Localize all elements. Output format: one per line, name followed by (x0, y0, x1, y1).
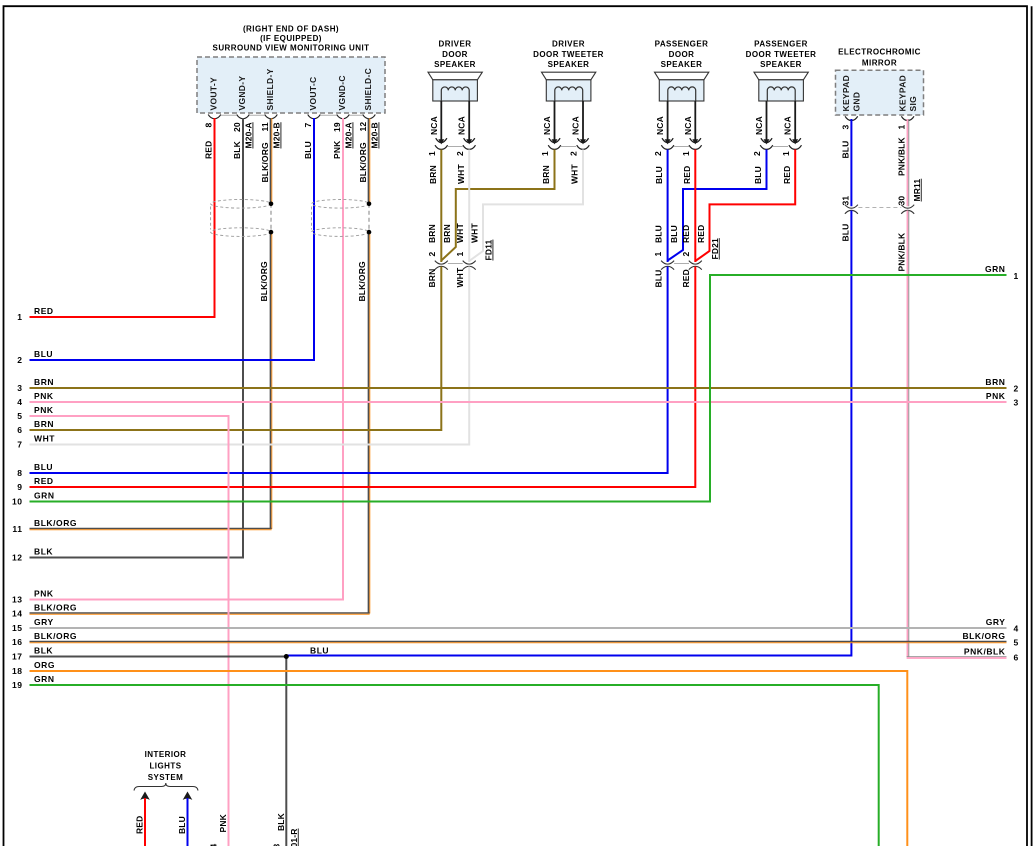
svg-text:PASSENGER: PASSENGER (754, 40, 808, 49)
svg-text:GRY: GRY (34, 617, 54, 627)
wire RED from pin 8 to node 1 (30, 118, 215, 317)
shield around VOUT-C pair (312, 200, 369, 209)
svg-text:3: 3 (1014, 398, 1019, 408)
pin 1 passenger tweeter (789, 145, 802, 149)
wire WHT driver tweeter pin2 branch to FD11 pin1 (469, 150, 583, 262)
svg-text:BLK: BLK (34, 546, 53, 556)
svg-text:01-R: 01-R (289, 828, 299, 846)
svg-text:DOOR: DOOR (442, 50, 468, 59)
svg-text:8: 8 (17, 468, 22, 478)
svg-text:3: 3 (17, 383, 22, 393)
svg-text:1: 1 (427, 151, 437, 156)
svg-text:BRN: BRN (442, 224, 452, 243)
svg-text:GRN: GRN (34, 674, 55, 684)
svg-text:DOOR TWEETER: DOOR TWEETER (533, 50, 604, 59)
svg-text:DRIVER: DRIVER (552, 40, 585, 49)
connector MR11 pin 31 (845, 205, 858, 209)
wire NCA driver speaker pin 2 (468, 101, 470, 142)
svg-text:RED: RED (681, 269, 691, 287)
svg-text:VOUT-C: VOUT-C (308, 77, 318, 111)
pin 12 (SHIELD-C) of M20-B (363, 115, 376, 119)
svg-text:RED: RED (696, 225, 706, 243)
wire NCA passenger speaker pin 1 (694, 101, 696, 142)
svg-text:RED: RED (681, 225, 691, 243)
svg-text:7: 7 (17, 440, 22, 450)
svg-text:2: 2 (455, 151, 465, 156)
svg-text:2: 2 (752, 151, 762, 156)
svg-text:19: 19 (332, 122, 342, 132)
wire PNK from pin 19 to node 13 (30, 118, 344, 600)
svg-text:MR11: MR11 (912, 179, 922, 202)
svg-text:3: 3 (840, 125, 850, 130)
svg-text:2: 2 (427, 252, 437, 257)
svg-text:SIG: SIG (908, 96, 918, 112)
svg-text:BRN: BRN (34, 377, 54, 387)
svg-text:WHT: WHT (34, 433, 55, 443)
wire BLU passenger tweeter branch to FD21 pin1 (668, 150, 767, 261)
svg-text:KEYPAD: KEYPAD (897, 75, 907, 112)
svg-text:NCA: NCA (542, 116, 552, 135)
svg-text:1: 1 (17, 312, 22, 322)
svg-text:BLK/ORG: BLK/ORG (358, 142, 368, 182)
svg-text:15: 15 (12, 623, 23, 633)
svg-text:BLU: BLU (654, 225, 664, 243)
svg-text:VOUT-Y: VOUT-Y (209, 77, 219, 110)
pin 3 (KEYPAD GND) electrochromic mirror (845, 116, 858, 120)
svg-text:5: 5 (1014, 638, 1019, 648)
svg-text:BLK/ORG: BLK/ORG (259, 261, 269, 301)
pin 1 driver tweeter (548, 145, 561, 149)
svg-text:PNK: PNK (34, 405, 54, 415)
svg-text:FD11: FD11 (484, 239, 494, 260)
svg-text:BLK: BLK (232, 140, 242, 159)
svg-text:12: 12 (12, 553, 23, 563)
pin 11 (SHIELD-Y) of M20-B (265, 115, 278, 119)
wire NCA passenger speaker pin 2 (667, 101, 669, 142)
connector FD11 pin 1 (463, 261, 476, 265)
svg-text:BRN: BRN (985, 377, 1005, 387)
svg-text:SYSTEM: SYSTEM (148, 773, 184, 782)
svg-text:DRIVER: DRIVER (439, 40, 472, 49)
svg-text:PNK: PNK (34, 391, 54, 401)
svg-text:BLU: BLU (177, 816, 187, 834)
svg-text:11: 11 (12, 524, 22, 534)
connector FD21 pin 1 (661, 261, 674, 265)
svg-text:VGND-Y: VGND-Y (237, 76, 247, 111)
svg-text:PNK: PNK (34, 588, 54, 598)
svg-text:19: 19 (12, 680, 23, 690)
svg-text:6: 6 (17, 425, 22, 435)
svg-text:SPEAKER: SPEAKER (661, 60, 703, 69)
svg-text:DOOR: DOOR (669, 50, 695, 59)
connector FD21 pin 2 (689, 261, 702, 265)
svg-text:17: 17 (12, 652, 23, 662)
wire BLK/ORG from pin 12 to node 14 (368, 118, 370, 204)
svg-text:4: 4 (1014, 624, 1019, 634)
svg-text:6: 6 (1014, 653, 1019, 663)
svg-text:31: 31 (840, 196, 850, 206)
svg-text:NCA: NCA (683, 116, 693, 135)
svg-text:WHT: WHT (456, 164, 466, 184)
svg-text:NCA: NCA (457, 116, 467, 135)
svg-text:BLU: BLU (34, 349, 53, 359)
svg-text:13: 13 (12, 595, 23, 605)
wire NCA driver tweeter pin 1 (554, 101, 556, 142)
svg-text:BLU: BLU (753, 166, 763, 184)
wire BRN below FD11 to node 6 (30, 267, 442, 431)
svg-text:BLK/ORG: BLK/ORG (357, 261, 367, 301)
svg-text:(IF EQUIPPED): (IF EQUIPPED) (260, 34, 322, 43)
svg-text:SHIELD-C: SHIELD-C (363, 68, 373, 111)
svg-text:BLU: BLU (669, 225, 679, 243)
svg-text:BRN: BRN (427, 224, 437, 243)
svg-text:7: 7 (303, 123, 313, 128)
svg-text:NCA: NCA (571, 116, 581, 135)
wire NCA driver speaker pin 1 (440, 101, 442, 142)
svg-text:BRN: BRN (428, 165, 438, 184)
svg-text:2: 2 (681, 252, 691, 257)
svg-text:BLK: BLK (276, 812, 286, 831)
svg-text:PNK/BLK: PNK/BLK (897, 232, 907, 272)
svg-text:GND: GND (852, 92, 862, 112)
svg-text:WHT: WHT (470, 223, 480, 243)
svg-text:4: 4 (17, 397, 22, 407)
svg-text:FD21: FD21 (710, 238, 720, 260)
svg-text:18: 18 (12, 666, 23, 676)
pin 2 driver door speaker (463, 145, 476, 149)
pin 1 passenger door speaker (689, 145, 702, 149)
svg-text:NCA: NCA (783, 116, 793, 135)
svg-text:11: 11 (260, 122, 270, 131)
shield around VOUT-Y pair (211, 200, 271, 209)
wire BLU to interior lights (183, 792, 193, 800)
svg-text:LIGHTS: LIGHTS (149, 762, 181, 771)
junction node BLK/BLU (284, 654, 289, 659)
svg-text:(RIGHT END OF DASH): (RIGHT END OF DASH) (243, 25, 339, 34)
svg-text:DOOR TWEETER: DOOR TWEETER (746, 50, 817, 59)
svg-text:KEYPAD: KEYPAD (841, 75, 851, 112)
svg-text:WHT: WHT (455, 267, 465, 287)
svg-text:NCA: NCA (655, 116, 665, 135)
svg-text:WHT: WHT (455, 223, 465, 243)
svg-text:ORG: ORG (34, 660, 55, 670)
svg-text:M20-B: M20-B (370, 122, 380, 148)
svg-text:1: 1 (540, 151, 550, 156)
svg-text:30: 30 (897, 196, 907, 206)
svg-text:GRN: GRN (985, 264, 1006, 274)
svg-text:20: 20 (232, 122, 242, 132)
svg-text:SHIELD-Y: SHIELD-Y (265, 68, 275, 110)
svg-text:M20-B: M20-B (272, 122, 282, 148)
svg-text:MIRROR: MIRROR (862, 58, 897, 67)
svg-text:RED: RED (34, 306, 54, 316)
svg-text:BRN: BRN (427, 269, 437, 288)
svg-text:BLU: BLU (34, 462, 53, 472)
svg-text:WHT: WHT (570, 164, 580, 184)
connector FD11 pin 2 (435, 261, 448, 265)
svg-text:2: 2 (1014, 384, 1019, 394)
svg-text:M20-A: M20-A (344, 122, 354, 148)
svg-text:PNK: PNK (986, 391, 1006, 401)
svg-text:BLK/ORG: BLK/ORG (34, 631, 77, 641)
svg-text:2: 2 (569, 151, 579, 156)
wire RED passenger speaker pin1 to FD21 pin2 (694, 150, 696, 263)
wire BLU passenger speaker pin2 to FD21 pin1 (667, 150, 669, 263)
svg-text:SPEAKER: SPEAKER (760, 60, 802, 69)
svg-text:PASSENGER: PASSENGER (655, 40, 709, 49)
svg-text:BLU: BLU (654, 270, 664, 288)
pin 20 (VGND-Y) of M20-A (237, 115, 250, 119)
wire BLU below FD21 to node 8 (30, 267, 668, 474)
wire BLK/ORG from pin 11 to node 11 (270, 118, 272, 204)
wire NCA driver tweeter pin 2 (582, 101, 584, 142)
svg-text:1: 1 (681, 151, 691, 156)
wire WHT driver speaker pin2 to FD11 pin1 (468, 150, 470, 263)
svg-text:BLU: BLU (303, 141, 313, 159)
svg-text:BLK/ORG: BLK/ORG (34, 602, 77, 612)
svg-text:RED: RED (782, 166, 792, 184)
svg-text:BLK/ORG: BLK/ORG (34, 518, 77, 528)
wire WHT below FD11 to node 7 (30, 267, 470, 445)
svg-text:9: 9 (17, 482, 22, 492)
svg-text:2: 2 (17, 355, 22, 365)
svg-text:GRY: GRY (986, 617, 1006, 627)
svg-text:NCA: NCA (754, 116, 764, 135)
pin 2 passenger door speaker (661, 145, 674, 149)
svg-text:PNK: PNK (332, 140, 342, 159)
svg-text:1: 1 (455, 252, 465, 257)
svg-text:14: 14 (12, 609, 23, 619)
svg-text:PNK/BLK: PNK/BLK (897, 136, 907, 176)
svg-text:SPEAKER: SPEAKER (434, 60, 476, 69)
wire RED to interior lights (140, 792, 150, 800)
pin 19 (VGND-C) of M20-A (337, 115, 350, 119)
wire RED below FD21 to node 9 (30, 267, 696, 488)
svg-text:16: 16 (12, 637, 23, 647)
wire PNK/BLK mirror pin1 to MR11 pin30 (906, 119, 908, 206)
svg-text:2: 2 (653, 151, 663, 156)
svg-text:BLU: BLU (654, 166, 664, 184)
svg-text:BLU: BLU (840, 141, 850, 159)
svg-text:ELECTROCHROMIC: ELECTROCHROMIC (838, 48, 921, 57)
pin 2 passenger tweeter (760, 145, 773, 149)
svg-text:12: 12 (358, 122, 368, 132)
pin 7 (VOUT-C) of M20-A (308, 115, 321, 119)
shield drain junction dots (Y) (269, 202, 274, 207)
svg-text:VGND-C: VGND-C (337, 75, 347, 110)
svg-text:BRN: BRN (541, 165, 551, 184)
wire BLK from pin 20 to node 12 (30, 118, 244, 558)
svg-text:SPEAKER: SPEAKER (548, 60, 590, 69)
connector MR11 pin 30 (901, 205, 914, 209)
svg-text:PNK: PNK (218, 813, 228, 832)
svg-text:NCA: NCA (429, 116, 439, 135)
pin 2 driver tweeter (577, 145, 590, 149)
svg-text:RED: RED (204, 141, 214, 159)
shield drain junction dots (C) (367, 202, 372, 207)
svg-text:BLK/ORG: BLK/ORG (962, 631, 1005, 641)
svg-text:5: 5 (17, 411, 22, 421)
svg-text:PNK/BLK: PNK/BLK (964, 647, 1006, 657)
wire BLK junction down to M01-R (285, 657, 287, 846)
pin 1 driver door speaker (435, 145, 448, 149)
wire NCA passenger tweeter pin 1 (794, 101, 796, 142)
svg-text:M20-A: M20-A (244, 122, 254, 148)
wire BRN driver speaker pin1 to FD11 pin2 (440, 150, 442, 263)
pin 1 (KEYPAD SIG) electrochromic mirror (901, 116, 914, 120)
svg-text:1: 1 (653, 252, 663, 257)
wire BLU mirror pin3 to MR11 pin31 (850, 119, 852, 206)
svg-text:RED: RED (135, 816, 145, 834)
svg-text:1: 1 (781, 151, 791, 156)
svg-text:BLU: BLU (840, 224, 850, 242)
svg-text:SURROUND VIEW MONITORING UNIT: SURROUND VIEW MONITORING UNIT (213, 44, 370, 53)
svg-text:RED: RED (34, 476, 54, 486)
wire NCA passenger tweeter pin 2 (766, 101, 768, 142)
svg-text:BLK/ORG: BLK/ORG (260, 142, 270, 182)
svg-text:1: 1 (1014, 271, 1019, 281)
wire RED passenger tweeter branch to FD21 pin2 (695, 150, 795, 262)
svg-text:INTERIOR: INTERIOR (145, 750, 187, 759)
wire BLU from pin 7 to node 2 (30, 118, 315, 360)
svg-text:8: 8 (204, 123, 214, 128)
wire BRN driver tweeter pin1 branch to FD11 pin2 (441, 150, 554, 261)
svg-text:1: 1 (897, 125, 907, 130)
svg-text:BRN: BRN (34, 419, 54, 429)
svg-text:BLK: BLK (34, 645, 53, 655)
svg-text:BLU: BLU (310, 646, 329, 656)
svg-text:GRN: GRN (34, 490, 55, 500)
pin 8 (VOUT-Y) of M20-A (208, 115, 221, 119)
svg-text:10: 10 (12, 497, 23, 507)
svg-text:RED: RED (682, 166, 692, 184)
